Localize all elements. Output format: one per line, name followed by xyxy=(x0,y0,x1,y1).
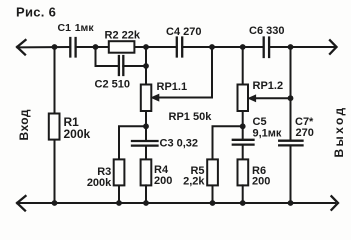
svg-text:200: 200 xyxy=(252,176,270,188)
svg-text:RP1.1: RP1.1 xyxy=(157,81,188,93)
capacitor C6 330 xyxy=(249,25,284,57)
capacitor C3 0,32 xyxy=(132,126,198,159)
output terminal arrow (bottom rail, right) xyxy=(332,196,339,210)
wire: bottom rail xyxy=(18,202,335,204)
svg-text:200k: 200k xyxy=(64,127,91,141)
capacitor C5 9,1мк xyxy=(233,116,282,160)
node B: C4 / RP1.1 wiper junction xyxy=(209,44,215,50)
node: C7 bottom junction xyxy=(288,200,294,206)
output terminal arrow (top rail, right) xyxy=(330,40,337,54)
node: wiper joins output column xyxy=(288,95,294,101)
node: R1 bottom junction xyxy=(52,200,58,206)
svg-text:RP1 50k: RP1 50k xyxy=(169,111,213,123)
wire: top rail, C6 to output node xyxy=(269,46,290,48)
node: RP1.2 top junction xyxy=(240,44,246,50)
resistor R6 200 xyxy=(238,159,271,203)
svg-text:RP1.2: RP1.2 xyxy=(253,80,284,92)
wire: top rail, input arrow to C1 xyxy=(18,46,70,48)
node: RP1.1 bottom junction xyxy=(143,123,149,129)
resistor R5 2,2k (from RP1.2 bottom junction) xyxy=(183,126,243,203)
svg-text:С1 1мк: С1 1мк xyxy=(58,22,95,34)
wire: top rail, RP1.2 top to C6 xyxy=(243,46,264,48)
svg-text:C4 270: C4 270 xyxy=(166,26,201,38)
node: R1 top junction xyxy=(52,44,58,50)
resistor R3 200k (from RP1.1 bottom junction) xyxy=(87,126,146,203)
svg-text:200: 200 xyxy=(154,175,172,187)
node: RP1.2 bottom junction xyxy=(240,123,246,129)
wire: top rail, node A area to C4 xyxy=(146,46,177,48)
node: R3 bottom junction xyxy=(116,200,122,206)
capacitor C1 1мк xyxy=(58,22,95,57)
wiper of RP1.2: arrow into body, wire to output column xyxy=(248,95,290,101)
svg-text:R2 22k: R2 22k xyxy=(105,30,141,42)
node: R5 bottom junction xyxy=(210,200,216,206)
svg-text:C2 510: C2 510 xyxy=(95,79,130,91)
wire: top rail, output node to output arrow xyxy=(291,46,336,48)
svg-text:Выход: Выход xyxy=(332,105,346,157)
potentiometer RP1.1 (body) xyxy=(141,47,187,126)
svg-text:2,2k: 2,2k xyxy=(183,176,205,188)
input terminal arrow (top rail, left) xyxy=(17,40,26,55)
wire: top rail, C4 to node B xyxy=(182,46,212,48)
svg-text:C6 330: C6 330 xyxy=(249,25,284,37)
svg-text:C5: C5 xyxy=(253,116,267,128)
svg-text:Вход: Вход xyxy=(17,109,31,140)
capacitor C2 510 (parallel with R2) xyxy=(95,47,147,91)
wire: output column (top node down to C7) xyxy=(290,47,292,203)
svg-text:Рис. 6: Рис. 6 xyxy=(16,4,56,19)
resistor R2 22k xyxy=(96,30,147,53)
node: R4 bottom junction xyxy=(143,200,149,206)
wiper of RP1.1: arrow into body, wire to node B xyxy=(152,47,213,123)
capacitor C7* 270 xyxy=(279,116,314,146)
svg-text:200k: 200k xyxy=(87,177,112,189)
node A: R2/C2 left junction xyxy=(93,44,99,50)
resistor R4 200 xyxy=(141,159,173,203)
capacitor C4 270 xyxy=(166,26,201,56)
node: output top junction xyxy=(288,44,294,50)
svg-text:270: 270 xyxy=(296,127,314,139)
svg-text:9,1мк: 9,1мк xyxy=(253,127,282,139)
node: C2 right lead joins RP1.1 column xyxy=(143,63,149,69)
node: R6 bottom junction xyxy=(240,200,246,206)
svg-text:C3 0,32: C3 0,32 xyxy=(160,138,199,150)
wire: top rail, node B to RP1.2 top xyxy=(212,46,243,48)
input terminal arrow (bottom rail, left) xyxy=(17,196,26,211)
node: RP1.1 top junction on top rail xyxy=(143,44,149,50)
potentiometer RP1.2 (body) xyxy=(238,47,284,126)
resistor R1 200k xyxy=(49,47,91,203)
wire: top rail, C1 to node A xyxy=(76,46,96,48)
